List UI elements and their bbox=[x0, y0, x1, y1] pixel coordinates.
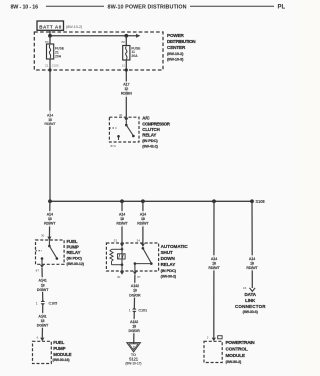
svg-text:PL: PL bbox=[278, 5, 286, 11]
svg-text:A14: A14 bbox=[47, 213, 53, 217]
wire bus to ASD relay switch bbox=[142, 201, 144, 243]
svg-text:FUEL: FUEL bbox=[67, 239, 78, 244]
PCM label block bbox=[226, 340, 256, 364]
svg-text:2: 2 bbox=[133, 346, 135, 350]
resistor branch bbox=[112, 248, 123, 250]
svg-text:(8W-30-12): (8W-30-12) bbox=[67, 262, 85, 266]
terminal dot fuse 11 exit bbox=[125, 68, 128, 71]
connector C105 bbox=[36, 301, 57, 306]
svg-text:LINK: LINK bbox=[245, 298, 256, 303]
relay coil box bbox=[118, 254, 126, 259]
op A/C compressor clutch relay dashed box bbox=[109, 117, 139, 148]
svg-text:(8W-42-2): (8W-42-2) bbox=[142, 144, 158, 148]
wire fuel pump relay output down to module bbox=[41, 268, 44, 302]
svg-text:12: 12 bbox=[124, 87, 128, 91]
terminal triangle bottom bbox=[40, 265, 44, 268]
svg-text:PUMP: PUMP bbox=[53, 346, 65, 351]
relay coil stub dashed bbox=[36, 250, 43, 252]
svg-text:FUEL: FUEL bbox=[53, 340, 64, 345]
svg-text:C100: C100 bbox=[52, 63, 59, 67]
fuel pump relay label block bbox=[67, 239, 85, 266]
svg-text:RD/WT: RD/WT bbox=[208, 266, 220, 270]
wire feed to fuse 11 bbox=[125, 36, 127, 46]
wire bus to ASD relay coil bbox=[121, 201, 123, 243]
svg-text:18: 18 bbox=[212, 261, 216, 265]
svg-text:DG/OR: DG/OR bbox=[129, 293, 141, 297]
svg-text:(8W-10-2): (8W-10-2) bbox=[66, 25, 83, 29]
wire label A14 18 RD/WT (PCM drop) bbox=[207, 255, 221, 270]
connector C101 bbox=[129, 308, 147, 313]
off-page marker to S121 bbox=[127, 343, 141, 352]
svg-text:18: 18 bbox=[250, 261, 254, 265]
relay common wire bbox=[125, 121, 127, 125]
svg-text:A14: A14 bbox=[119, 213, 125, 217]
svg-text:AUTOMATIC: AUTOMATIC bbox=[161, 244, 189, 249]
ASD relay label block bbox=[161, 244, 189, 279]
relay switch arm bbox=[49, 246, 56, 258]
svg-text:(8W-30-2): (8W-30-2) bbox=[226, 360, 243, 364]
svg-text:20A: 20A bbox=[131, 54, 138, 58]
wire label A142 18 DG/OR lower bbox=[127, 319, 141, 334]
svg-text:18: 18 bbox=[132, 324, 136, 328]
svg-text:A17: A17 bbox=[123, 83, 129, 87]
terminal triangle ASD switch bbox=[141, 243, 145, 247]
svg-text:18: 18 bbox=[141, 217, 145, 221]
svg-text:A14: A14 bbox=[249, 257, 255, 261]
svg-text:11: 11 bbox=[122, 64, 125, 68]
svg-text:COMPRESSOR: COMPRESSOR bbox=[142, 121, 170, 126]
svg-text:30: 30 bbox=[41, 234, 45, 238]
svg-text:DG/WT: DG/WT bbox=[37, 324, 49, 328]
svg-text:(8W-30-2): (8W-30-2) bbox=[161, 275, 177, 279]
svg-text:A142: A142 bbox=[130, 320, 138, 324]
svg-text:A141: A141 bbox=[38, 315, 46, 319]
module fuel pump module dashed box bbox=[33, 341, 52, 363]
DLC label block bbox=[235, 292, 266, 314]
wire bus to PCM bbox=[213, 201, 215, 337]
svg-text:18: 18 bbox=[41, 283, 45, 287]
header right rule bbox=[190, 5, 274, 7]
wire feed to fuse 21 bbox=[49, 36, 51, 44]
svg-text:18: 18 bbox=[41, 319, 45, 323]
wire label A141 18 DG/WT bbox=[36, 277, 50, 292]
wire BATT to feed bus bbox=[49, 30, 51, 36]
fuel pump module label block bbox=[53, 340, 72, 362]
svg-text:CONTROL: CONTROL bbox=[226, 347, 248, 352]
terminal triangle PCM bbox=[212, 338, 216, 342]
svg-text:(8W-10-3): (8W-10-3) bbox=[167, 57, 184, 62]
relay switch arm bbox=[126, 125, 133, 136]
switch terminal bottom bbox=[133, 271, 137, 274]
relay 87 contact bbox=[41, 257, 44, 260]
svg-text:8W - 10 - 16: 8W - 10 - 16 bbox=[11, 4, 39, 10]
splice bus S108 bbox=[50, 200, 252, 202]
svg-text:POWER: POWER bbox=[167, 33, 185, 38]
svg-text:DATA: DATA bbox=[245, 292, 257, 297]
switch arm bbox=[143, 248, 151, 263]
wire label A142 18 DG/OR bbox=[128, 283, 142, 298]
svg-text:DG/OR: DG/OR bbox=[128, 329, 140, 333]
svg-text:B6: B6 bbox=[45, 40, 49, 44]
svg-text:87A: 87A bbox=[111, 144, 116, 148]
svg-text:16: 16 bbox=[243, 286, 247, 290]
svg-text:A14: A14 bbox=[47, 113, 53, 117]
fuse 11 bbox=[123, 46, 141, 61]
header left rule bbox=[46, 5, 104, 7]
wire label A17 12 RD/BN bbox=[119, 81, 133, 97]
svg-text:RD/BN: RD/BN bbox=[121, 92, 132, 96]
feed wire inside PDC with arrow bbox=[50, 35, 136, 37]
svg-text:(IN PDC): (IN PDC) bbox=[67, 256, 83, 261]
svg-text:DISTRIBUTION: DISTRIBUTION bbox=[167, 39, 196, 44]
A/C relay label block bbox=[142, 116, 170, 149]
terminal triangle ASD coil bbox=[120, 243, 124, 247]
switch node bbox=[142, 247, 145, 250]
svg-text:BATT A0: BATT A0 bbox=[39, 24, 62, 29]
junction at fuse 11 feed bbox=[124, 34, 128, 38]
junction at BATT feed bbox=[48, 34, 52, 38]
svg-text:(8W-30-6): (8W-30-6) bbox=[243, 310, 259, 314]
svg-text:RD/WT: RD/WT bbox=[116, 222, 128, 226]
node BATT A0 box bbox=[37, 21, 64, 30]
terminal dot fuse 21 exit bbox=[48, 68, 51, 71]
relay 87A contact bbox=[117, 135, 120, 138]
wire label A141 18 DG/WT lower bbox=[36, 313, 50, 328]
wire label A14 18 RD/WT (ASD switch drop) bbox=[136, 211, 150, 227]
wire label A14 18 RD/WT (DLC drop) bbox=[245, 255, 259, 270]
svg-text:18: 18 bbox=[48, 118, 52, 122]
svg-text:A/C: A/C bbox=[142, 116, 150, 121]
svg-text:PUMP: PUMP bbox=[67, 245, 79, 250]
svg-text:CONNECTOR: CONNECTOR bbox=[235, 304, 266, 309]
svg-text:20A: 20A bbox=[55, 54, 62, 58]
terminal triangle fuel pump relay bbox=[47, 237, 51, 241]
svg-text:RD/WT: RD/WT bbox=[246, 266, 258, 270]
svg-text:1: 1 bbox=[36, 302, 38, 306]
svg-text:87: 87 bbox=[137, 275, 141, 279]
svg-text:(IN PDC): (IN PDC) bbox=[161, 268, 177, 273]
module powertrain control module dashed box bbox=[204, 341, 222, 362]
fuse 21 bbox=[47, 44, 65, 59]
wire label A14 18 RD/WT (fuel pump relay drop) bbox=[43, 211, 57, 227]
relay coil stub dashed bbox=[109, 127, 116, 129]
svg-text:RD/WT: RD/WT bbox=[44, 122, 56, 126]
svg-text:(8W-10-2): (8W-10-2) bbox=[167, 51, 184, 56]
svg-text:C101: C101 bbox=[138, 309, 147, 313]
svg-text:A14: A14 bbox=[211, 257, 217, 261]
terminal chevron DLC bbox=[250, 288, 256, 292]
svg-text:30: 30 bbox=[117, 275, 121, 279]
power distribution center dashed box bbox=[34, 32, 163, 70]
relay automatic shut down relay dashed box bbox=[106, 243, 158, 275]
wire fuse 11 output down to A/C relay bbox=[125, 60, 127, 117]
wire ASD output down to S121 marker bbox=[134, 275, 135, 344]
svg-text:33: 33 bbox=[114, 239, 118, 243]
svg-text:(IN PDC): (IN PDC) bbox=[142, 138, 158, 143]
PDC label block bbox=[167, 33, 196, 62]
svg-text:MODULE: MODULE bbox=[53, 352, 71, 357]
svg-text:CLUTCH: CLUTCH bbox=[142, 127, 159, 132]
svg-text:1: 1 bbox=[129, 309, 131, 313]
svg-text:S108: S108 bbox=[255, 199, 265, 204]
svg-text:RD/WT: RD/WT bbox=[44, 222, 56, 226]
svg-text:C105: C105 bbox=[49, 302, 58, 306]
svg-text:87: 87 bbox=[36, 268, 40, 272]
svg-text:DOWN: DOWN bbox=[161, 256, 176, 261]
svg-text:CENTER: CENTER bbox=[167, 45, 186, 50]
svg-text:A14: A14 bbox=[140, 213, 146, 217]
svg-text:B6: B6 bbox=[121, 40, 125, 44]
svg-text:RELAY: RELAY bbox=[67, 250, 81, 255]
coil terminal bottom bbox=[120, 271, 124, 274]
svg-text:RELAY: RELAY bbox=[142, 133, 156, 138]
svg-text:8W-10 POWER DISTRIBUTION: 8W-10 POWER DISTRIBUTION bbox=[108, 4, 187, 10]
svg-text:(8W-30-16): (8W-30-16) bbox=[53, 358, 71, 362]
wire label A14 18 RD/WT (left drop) bbox=[43, 111, 57, 127]
svg-text:RD/WT: RD/WT bbox=[137, 222, 149, 226]
svg-text:A142: A142 bbox=[131, 284, 139, 288]
svg-text:MODULE: MODULE bbox=[226, 353, 245, 358]
coil node top bbox=[121, 247, 123, 250]
pin terminal triangle bbox=[124, 118, 128, 122]
svg-text:A141: A141 bbox=[38, 279, 46, 283]
wire bus to data link connector bbox=[251, 201, 253, 288]
S121 label bbox=[125, 353, 141, 366]
svg-text:RELAY: RELAY bbox=[161, 262, 176, 267]
svg-text:18: 18 bbox=[133, 289, 137, 293]
connector symbol C1 on PCM bbox=[218, 336, 222, 339]
wire label A14 18 RD/WT (ASD coil drop) bbox=[115, 211, 129, 227]
svg-text:(8W-10-17): (8W-10-17) bbox=[125, 362, 141, 366]
svg-text:POWERTRAIN: POWERTRAIN bbox=[226, 340, 256, 345]
svg-text:21: 21 bbox=[45, 64, 49, 68]
svg-text:SHUT: SHUT bbox=[161, 250, 173, 255]
svg-text:18: 18 bbox=[120, 217, 124, 221]
svg-text:18: 18 bbox=[48, 217, 52, 221]
svg-text:DG/WT: DG/WT bbox=[37, 288, 49, 292]
svg-text:34: 34 bbox=[137, 239, 141, 243]
wire bus to fuel pump relay bbox=[48, 201, 51, 240]
relay fuel pump relay dashed box bbox=[36, 240, 65, 268]
terminal triangle fuel pump module bbox=[40, 338, 44, 342]
wire fuse 21 output down to splice bus bbox=[49, 59, 51, 201]
